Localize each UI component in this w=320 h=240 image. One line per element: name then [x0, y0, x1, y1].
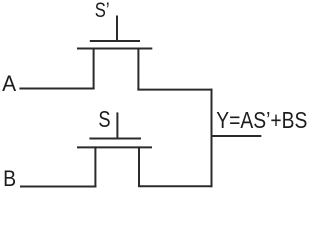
transistor Q1 (pass transistor, gate S')	[77, 16, 152, 91]
wire from B to Q2 source	[20, 186, 96, 188]
svg-text:S: S	[98, 106, 110, 132]
svg-text:Y=AS’+BS: Y=AS’+BS	[216, 107, 307, 133]
wire from A to Q1 source	[19, 88, 94, 90]
svg-text:S’: S’	[95, 0, 110, 22]
wire from Q2 drain to node Y	[138, 185, 213, 187]
wire from Q1 drain to node Y	[137, 89, 212, 91]
transistor Q2 (pass transistor, gate S)	[77, 112, 152, 187]
node Y vertical bus wire	[211, 89, 213, 188]
wire output stub Y	[212, 135, 262, 137]
svg-text:B: B	[3, 166, 16, 191]
svg-text:A: A	[2, 71, 16, 96]
